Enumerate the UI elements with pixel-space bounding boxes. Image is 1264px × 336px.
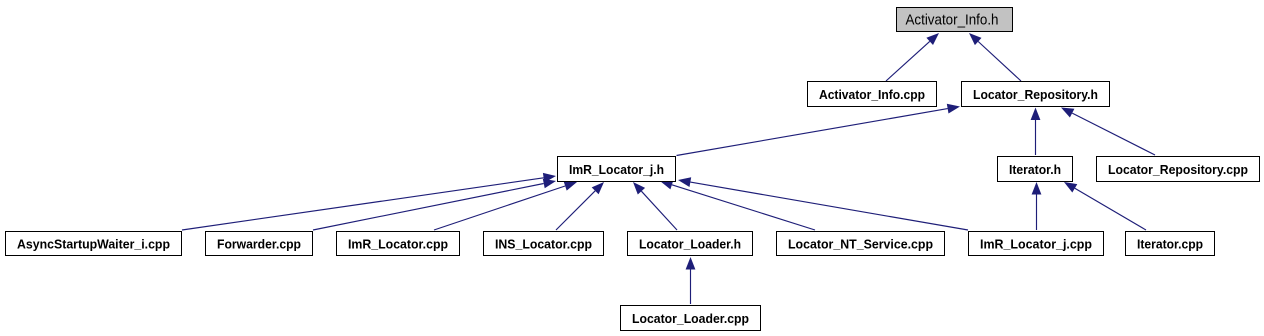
node Locator_Loader.cpp: [621, 306, 761, 331]
svg-text:Locator_Loader.h: Locator_Loader.h: [639, 236, 741, 251]
wire ImR_Locator.cpp -> ImR_Locator_j.h: [434, 181, 577, 230]
wire Locator_NT_Service.cpp -> ImR_Locator_j.h: [660, 180, 815, 230]
node Activator_Info.cpp: [808, 82, 937, 107]
wire Activator_Info.cpp -> Activator_Info.h: [886, 33, 939, 81]
svg-text:Forwarder.cpp: Forwarder.cpp: [217, 236, 301, 251]
node ImR_Locator_j.cpp: [969, 232, 1104, 256]
wire Iterator.h -> Locator_Repository.h: [1031, 108, 1041, 156]
wire AsyncStartupWaiter_i.cpp -> ImR_Locator_j.h: [182, 173, 556, 230]
svg-text:Activator_Info.cpp: Activator_Info.cpp: [819, 87, 925, 102]
node INS_Locator.cpp: [484, 232, 604, 256]
node Locator_Loader.h: [628, 232, 753, 256]
node Iterator.cpp: [1126, 232, 1215, 256]
svg-text:ImR_Locator.cpp: ImR_Locator.cpp: [348, 236, 448, 251]
node ImR_Locator.cpp: [337, 232, 460, 256]
node Locator_NT_Service.cpp: [777, 232, 945, 256]
svg-text:ImR_Locator_j.cpp: ImR_Locator_j.cpp: [980, 236, 1092, 251]
wire Iterator.cpp -> Iterator.h: [1064, 182, 1146, 230]
wire Locator_Repository.cpp -> Locator_Repository.h: [1061, 108, 1155, 156]
wire ImR_Locator_j.cpp -> Iterator.h: [1032, 182, 1042, 230]
svg-text:Locator_NT_Service.cpp: Locator_NT_Service.cpp: [788, 236, 933, 251]
node Locator_Repository.cpp: [1097, 157, 1260, 182]
svg-text:INS_Locator.cpp: INS_Locator.cpp: [495, 236, 592, 251]
wire ImR_Locator_j.h -> Locator_Repository.h: [677, 104, 961, 156]
node Activator_Info.h: [897, 8, 1013, 32]
svg-text:ImR_Locator_j.h: ImR_Locator_j.h: [569, 162, 664, 177]
node Forwarder.cpp: [206, 232, 313, 256]
svg-text:Locator_Loader.cpp: Locator_Loader.cpp: [632, 311, 749, 326]
svg-text:Locator_Repository.cpp: Locator_Repository.cpp: [1108, 162, 1248, 177]
svg-text:Activator_Info.h: Activator_Info.h: [906, 12, 999, 29]
node Locator_Repository.h: [962, 82, 1110, 107]
node AsyncStartupWaiter_i.cpp: [6, 232, 182, 256]
svg-text:Locator_Repository.h: Locator_Repository.h: [973, 87, 1098, 102]
node Iterator.h: [998, 157, 1073, 182]
wire INS_Locator.cpp -> ImR_Locator_j.h: [556, 182, 604, 230]
wire Locator_Repository.h -> Activator_Info.h: [969, 33, 1021, 81]
svg-text:Iterator.cpp: Iterator.cpp: [1137, 236, 1203, 251]
svg-text:AsyncStartupWaiter_i.cpp: AsyncStartupWaiter_i.cpp: [17, 236, 170, 251]
wire Forwarder.cpp -> ImR_Locator_j.h: [313, 179, 556, 230]
wire Locator_Loader.h -> ImR_Locator_j.h: [633, 182, 677, 230]
svg-text:Iterator.h: Iterator.h: [1009, 162, 1061, 177]
wire Locator_Loader.cpp -> Locator_Loader.h: [686, 257, 696, 304]
node ImR_Locator_j.h: [558, 157, 676, 182]
wire ImR_Locator_j.cpp -> ImR_Locator_j.h: [678, 177, 968, 230]
